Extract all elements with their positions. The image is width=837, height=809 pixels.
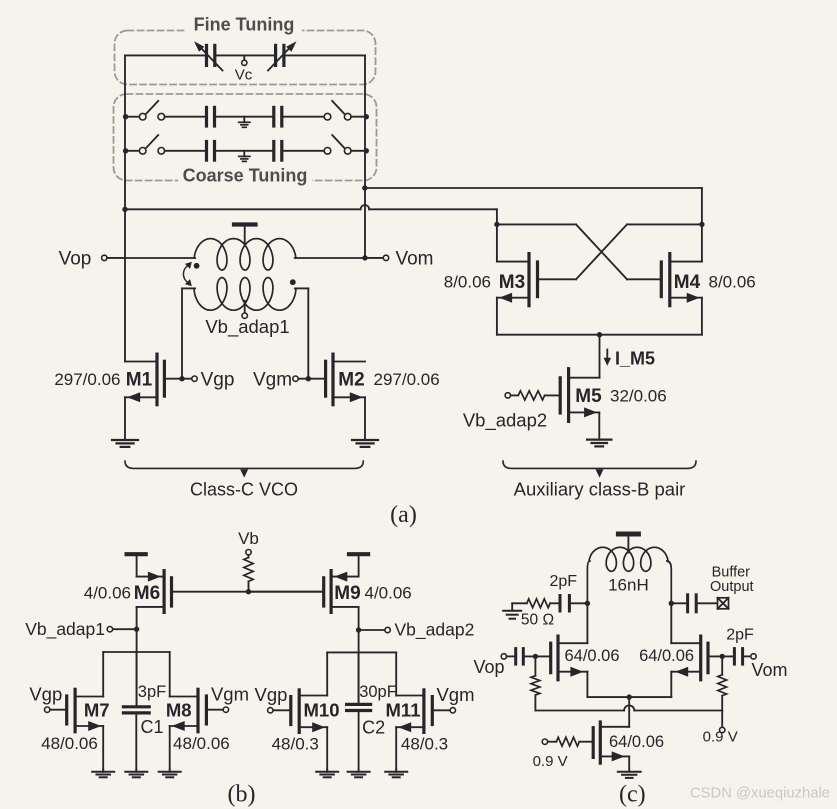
capacitor C2 (347, 652, 371, 769)
svg-text:64/0.06: 64/0.06 (639, 647, 694, 665)
value 8/0.06 (M4) (709, 273, 756, 292)
transistor buffer right (671, 636, 708, 680)
switched capacitor row 1 (switch S1a, caps, ground, switch S1b) (123, 101, 369, 127)
label M8 (166, 700, 192, 721)
label 3pF (138, 683, 166, 701)
svg-text:CSDN @xueqiuzhale: CSDN @xueqiuzhale (690, 786, 830, 802)
svg-text:M5: M5 (575, 386, 602, 407)
svg-text:Output: Output (710, 579, 754, 595)
ground under C2 (348, 770, 370, 778)
ground 50ohm branch (503, 603, 521, 618)
label M3 (499, 272, 525, 293)
svg-text:4/0.06: 4/0.06 (365, 584, 412, 603)
label Fine Tuning (186, 15, 302, 36)
wire right tank drop (669, 601, 674, 644)
resistor Vop bias (531, 656, 540, 710)
svg-text:Vgm: Vgm (436, 684, 474, 705)
svg-text:M7: M7 (84, 700, 110, 721)
value 64/0.06 (buffer left) (564, 647, 619, 665)
wire cross-couple left horizontal (497, 223, 576, 225)
wire bias rail (535, 705, 722, 710)
watermark (690, 786, 830, 802)
wire M3 drain rail (494, 222, 499, 262)
terminal Vop (buffer) (473, 654, 515, 677)
capacitor Vop input 2pF (516, 649, 549, 665)
svg-text:Vop: Vop (473, 657, 504, 677)
wire left tank drop (585, 601, 590, 644)
current label I_M5 (604, 349, 656, 369)
polarity dot secondary (290, 279, 296, 285)
svg-text:8/0.06: 8/0.06 (444, 273, 491, 292)
label M1 (126, 370, 153, 391)
label Vgp (M10) (255, 684, 288, 705)
label M6 (134, 583, 160, 604)
value 48/0.06 (M8) (173, 734, 230, 753)
node Vb_adap2 terminal (356, 620, 474, 641)
value 8/0.06 (M3) (444, 273, 491, 292)
label Vgm (M8) (211, 684, 249, 705)
wire common source rail (497, 298, 702, 338)
svg-text:48/0.3: 48/0.3 (272, 735, 319, 754)
svg-text:0.9 V: 0.9 V (533, 753, 568, 770)
wire M4 drain rail (699, 222, 704, 262)
wire M9 drain to C2 (358, 607, 360, 704)
ground under M11 (385, 770, 407, 778)
wire buffer left source (587, 672, 629, 697)
wire M7-M8 drain link (103, 651, 170, 653)
label Coarse Tuning (178, 166, 312, 187)
wire cross-couple diagonal to M3 gate (539, 224, 627, 279)
svg-text:30pF: 30pF (359, 683, 397, 701)
svg-text:Auxiliary class-B pair: Auxiliary class-B pair (514, 479, 686, 500)
svg-text:(a): (a) (390, 502, 417, 528)
label M5 (575, 386, 602, 407)
wire cross-couple diagonal to M4 gate (576, 224, 660, 279)
value 48/0.3 (M10) (272, 735, 319, 754)
brace Auxiliary class-B pair (503, 461, 696, 500)
label (b) (228, 782, 256, 808)
value 297/0.06 (M1) (54, 370, 120, 389)
svg-text:64/0.06: 64/0.06 (564, 647, 619, 665)
svg-text:C2: C2 (362, 718, 385, 738)
svg-text:M11: M11 (386, 700, 421, 721)
supply bar (tank center tap VDD) (234, 225, 256, 244)
wire left rail (tank left) (124, 55, 126, 361)
wire cross-couple right horizontal (627, 223, 702, 225)
resistor R_Vb (244, 555, 253, 595)
resistor tail gate (548, 737, 592, 746)
wire fine-tuning row (125, 54, 365, 56)
wire top link to aux pair (362, 185, 702, 224)
supply bar 16nH (618, 534, 638, 553)
ground under M5 (587, 412, 611, 446)
coarse tuning dashed box (114, 94, 377, 181)
ground under C1 (125, 770, 147, 778)
svg-text:8/0.06: 8/0.06 (709, 273, 756, 292)
label Vgm (M11) (436, 684, 474, 705)
capacitor 2pF output (671, 595, 716, 612)
svg-text:M2: M2 (338, 370, 364, 391)
svg-text:3pF: 3pF (138, 683, 166, 701)
svg-text:Vb_adap1: Vb_adap1 (205, 316, 289, 338)
value 297/0.06 (M2) (374, 370, 440, 389)
transistor M10 (268, 652, 328, 769)
capacitor Vom output 2pF (734, 649, 750, 665)
fine tuning dashed box (115, 31, 376, 85)
wire right rail (tank right) (364, 55, 366, 258)
wire tail drain (628, 697, 630, 727)
svg-text:Class-C VCO: Class-C VCO (190, 480, 298, 500)
terminal Vom (362, 249, 433, 270)
svg-text:M3: M3 (499, 272, 525, 293)
inductor 16nH (587, 547, 671, 603)
ground under tail (618, 756, 641, 778)
terminal 0.9V right (703, 711, 738, 746)
svg-text:4/0.06: 4/0.06 (84, 584, 131, 603)
ground under M8 (159, 770, 181, 778)
label (a) (390, 502, 417, 528)
svg-text:C1: C1 (140, 717, 163, 737)
label M7 (84, 700, 110, 721)
wire M1 gate drop (179, 288, 184, 381)
node Vc (235, 55, 253, 83)
svg-text:Vgm: Vgm (253, 370, 292, 391)
wire M6 drain to C1 (136, 607, 138, 706)
svg-text:M4: M4 (674, 272, 701, 293)
wire tail node (599, 335, 601, 378)
value 48/0.06 (M7) (41, 734, 98, 753)
value 64/0.06 (buffer right) (639, 647, 694, 665)
transistor M11 (396, 652, 455, 769)
switched capacitor row 2 (switch S2a, caps, ground, switch S2b) (123, 135, 369, 161)
varactor CV2 (268, 41, 297, 70)
svg-text:M1: M1 (126, 370, 153, 391)
terminal Vb_adap2 (M5 gate) (463, 393, 547, 432)
svg-text:M8: M8 (166, 700, 192, 721)
wire right gate node (710, 654, 735, 659)
ground under M7 (92, 770, 114, 778)
svg-text:Vgp: Vgp (29, 684, 62, 705)
svg-text:M10: M10 (304, 700, 340, 721)
transistor M7 (45, 652, 104, 770)
label 2pF right (726, 627, 754, 644)
value 32/0.06 (M5) (610, 387, 667, 406)
wire second link to aux pair (122, 205, 497, 224)
value 4/0.06 (M9) (365, 584, 412, 603)
transistor M8 (170, 652, 229, 770)
terminal 0.9V tail (533, 739, 568, 770)
varactor CV1 (194, 41, 223, 70)
wire gate link M6-M9 (246, 591, 322, 593)
svg-text:16nH: 16nH (608, 576, 649, 595)
svg-text:Vom: Vom (751, 660, 787, 680)
svg-text:48/0.3: 48/0.3 (401, 735, 448, 754)
label 30pF (359, 683, 397, 701)
coupling arrow (183, 262, 191, 286)
transistor M2 (298, 354, 365, 405)
node Vb_adap1 terminal (25, 619, 139, 640)
transistor M6 (137, 571, 246, 613)
svg-text:Vb_adap1: Vb_adap1 (25, 619, 105, 640)
terminal Buffer Output (710, 565, 754, 609)
supply bar M9 (349, 554, 368, 576)
supply bar M6 (127, 554, 146, 576)
svg-text:32/0.06: 32/0.06 (610, 387, 667, 406)
svg-text:Vc: Vc (235, 67, 253, 84)
label C2 (362, 718, 385, 738)
resistor Vom bias (718, 656, 727, 710)
value 4/0.06 (M6) (84, 584, 131, 603)
svg-text:Vb_adap2: Vb_adap2 (395, 620, 475, 641)
label C1 (140, 717, 163, 737)
capacitor C1 (123, 652, 149, 770)
terminal Vgm (M2 gate) (253, 370, 298, 391)
value 64/0.06 (tail) (609, 733, 664, 751)
label M11 (386, 700, 421, 721)
node Vb_adap1 (center tap) (205, 301, 289, 338)
svg-text:(b): (b) (228, 782, 256, 808)
wire buffer right source (627, 672, 672, 700)
resistor 50 ohm (512, 599, 560, 608)
transistor M3 (497, 254, 538, 306)
svg-text:M6: M6 (134, 583, 160, 604)
svg-text:Vb_adap2: Vb_adap2 (463, 410, 547, 432)
node Vb supply (238, 529, 259, 555)
value 48/0.3 (M11) (401, 735, 448, 754)
ground under M2 (352, 397, 378, 447)
label M4 (674, 272, 701, 293)
terminal Vop (59, 249, 125, 270)
terminal Vgp (M1 gate) (192, 370, 235, 391)
svg-text:48/0.06: 48/0.06 (41, 734, 98, 753)
svg-text:2pF: 2pF (550, 573, 578, 590)
transistor M4 (661, 254, 702, 306)
svg-text:Fine Tuning: Fine Tuning (194, 15, 295, 35)
svg-text:297/0.06: 297/0.06 (374, 370, 440, 389)
svg-text:50 Ω: 50 Ω (521, 612, 554, 629)
wire M10-M11 drain link (327, 651, 396, 653)
transistor M1 (125, 354, 192, 405)
label 2pF left (550, 573, 578, 590)
svg-text:48/0.06: 48/0.06 (173, 734, 230, 753)
label M9 (334, 583, 360, 604)
capacitor 2pF left (560, 596, 587, 612)
resistor M5 gate (510, 391, 558, 400)
transformer secondary coil (bottom) (182, 278, 308, 311)
transistor buffer tail (593, 722, 629, 763)
svg-text:M9: M9 (334, 583, 360, 604)
svg-text:I_M5: I_M5 (615, 349, 655, 369)
transistor M5 (560, 369, 599, 422)
transistor buffer left (551, 636, 588, 680)
label M10 (304, 700, 340, 721)
svg-text:Vop: Vop (59, 249, 92, 270)
label M2 (338, 370, 364, 391)
ground under M10 (316, 770, 338, 778)
svg-text:Vgp: Vgp (255, 684, 288, 705)
brace Class-C VCO (125, 461, 363, 500)
svg-text:Vb: Vb (238, 529, 259, 548)
svg-text:2pF: 2pF (726, 627, 754, 644)
transformer primary coil (top) (125, 239, 365, 270)
label 16nH (608, 576, 649, 595)
svg-text:Vgp: Vgp (201, 370, 235, 391)
label Vgp (M7) (29, 684, 62, 705)
svg-text:(c): (c) (619, 782, 646, 808)
svg-text:Vom: Vom (395, 249, 433, 270)
wire M2 gate drop (306, 288, 311, 381)
svg-text:Vgm: Vgm (211, 684, 249, 705)
polarity dot primary (194, 263, 200, 269)
ground under M1 (112, 397, 138, 447)
svg-text:0.9 V: 0.9 V (703, 729, 738, 746)
svg-text:64/0.06: 64/0.06 (609, 733, 664, 751)
svg-text:297/0.06: 297/0.06 (54, 370, 120, 389)
terminal Vom (buffer) (751, 654, 788, 680)
label (c) (619, 782, 646, 808)
transistor M9 (249, 571, 359, 613)
svg-text:Coarse Tuning: Coarse Tuning (183, 166, 308, 186)
label 50 ohm (521, 612, 554, 629)
